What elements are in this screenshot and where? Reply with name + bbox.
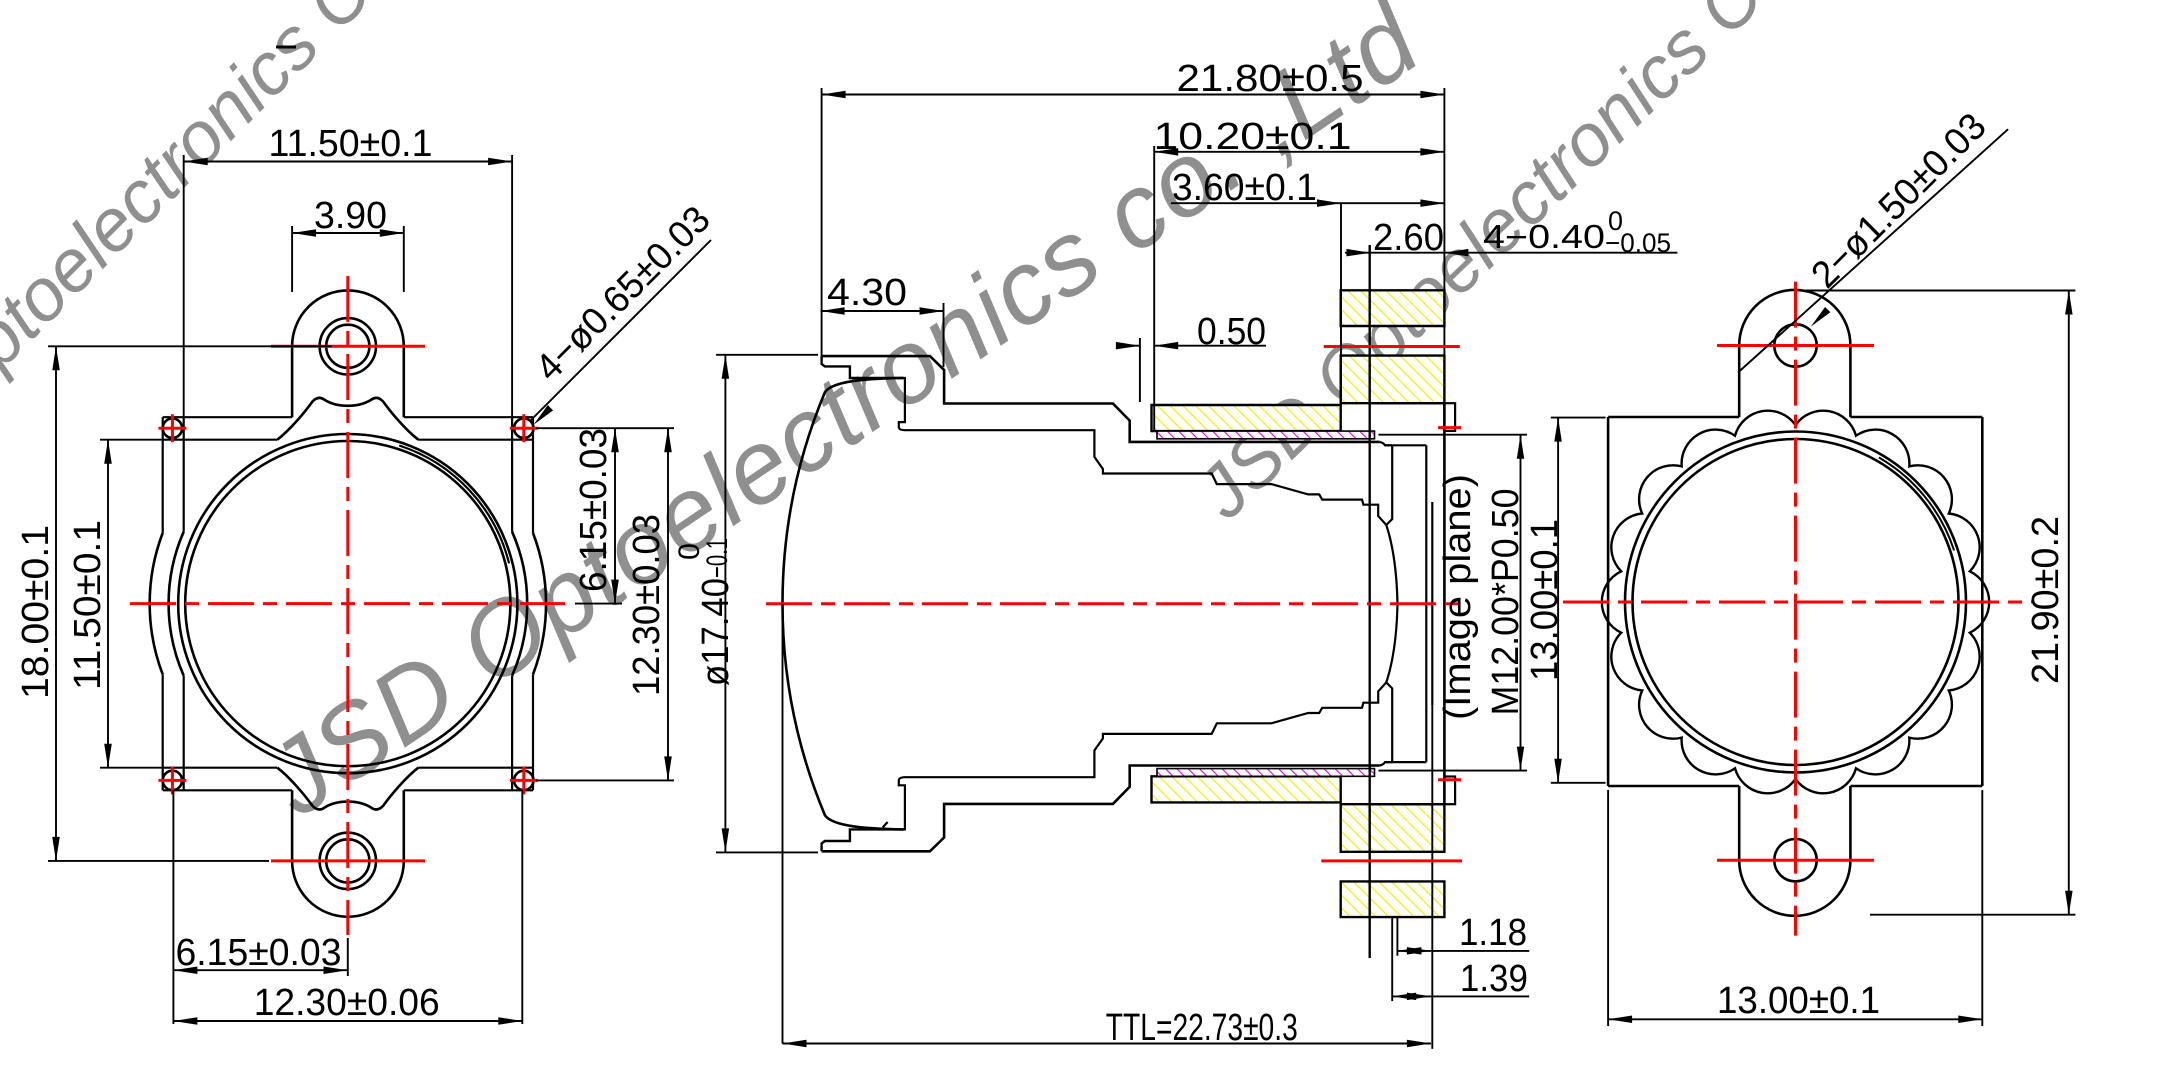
sensor holder bottom arm hatch: [1152, 776, 1341, 802]
left view left side bulge outer arc: [150, 533, 163, 674]
dim 4.30 line: [821, 310, 944, 312]
left view right side bulge outer arc: [533, 533, 546, 674]
right view top ear hole: [1774, 324, 1816, 366]
svg-text:0.50: 0.50: [1197, 311, 1266, 353]
dim 12.30 right line: [667, 428, 669, 780]
dim 3.60 line: [1171, 202, 1444, 204]
left view inner square bottom edge right segment: [418, 767, 512, 769]
left view outer square top edge left segment: [163, 416, 292, 418]
dim 18.00 extension lines: [48, 345, 332, 347]
left view inner square right edge lower: [511, 676, 513, 768]
dim 12.30 bottom right extension line: [521, 790, 523, 1024]
dim M12 line: [1520, 435, 1522, 771]
dim 4.30 right extension: [943, 303, 945, 367]
left view bottom-left corner hole: [163, 771, 182, 790]
svg-text:ø17.40: ø17.40: [695, 578, 737, 686]
dim 4-dia0.65 leader: [530, 240, 711, 421]
dim 13.00 right-view-bottom extension lines: [1607, 790, 1609, 1026]
left view top-right corner hole: [514, 419, 533, 438]
left view top ear hole red crosshair: [271, 345, 425, 348]
dim 21.90 line: [2068, 291, 2070, 915]
front lens dome curve: [782, 378, 903, 829]
left view top ear hole inner circle: [326, 325, 369, 368]
svg-text:4.30: 4.30: [827, 272, 907, 314]
svg-text:TTL=22.73±0.3: TTL=22.73±0.3: [1106, 1007, 1298, 1049]
dim 6.15 bottom line: [173, 969, 347, 971]
svg-text:12.30±0.06: 12.30±0.06: [254, 982, 440, 1024]
left view top-left corner hole red crosshair: [158, 427, 186, 430]
dim 6.15 bottom extension lines: [172, 790, 174, 1024]
dim 6.15 right extension line: [575, 603, 622, 605]
sensor glass bottom strip magenta hatch: [1157, 769, 1375, 777]
left view vertical red centerline: [346, 276, 349, 935]
dim 21.80 left extension: [821, 88, 823, 356]
left view inner square left edge lower: [183, 676, 185, 768]
right view bottom ear outline: [1739, 786, 1850, 916]
left view inner square top edge left segment: [184, 439, 278, 441]
left view outer square left edge upper: [162, 417, 164, 533]
left view inner square top edge right segment: [418, 439, 512, 441]
right view top ear hole red crosshair: [1717, 344, 1874, 347]
sensor glass top strip magenta hatch: [1157, 431, 1375, 439]
dim 1.18 line: [1397, 950, 1431, 952]
dim 13.00 right-view-bottom line: [1608, 1018, 1982, 1020]
left view outer square bottom edge left segment: [163, 789, 292, 791]
svg-text:4−0.40: 4−0.40: [1483, 218, 1605, 255]
rear tube end face: [1425, 445, 1427, 762]
dim 11.50 left line: [107, 440, 109, 768]
svg-text:11.50±0.1: 11.50±0.1: [269, 123, 433, 165]
dim 12.30 bottom line: [173, 1020, 522, 1022]
left view inner square right edge upper: [511, 440, 513, 532]
left view top-right corner hole red crosshair: [510, 427, 538, 430]
right view square bottom edge right segment: [1850, 785, 1982, 788]
left view bottom ear hole outer circle: [320, 833, 376, 889]
dim 0.50 left extension: [1139, 338, 1141, 402]
svg-text:2.60: 2.60: [1373, 217, 1444, 259]
left view bottom-right corner hole: [514, 771, 533, 790]
svg-text:10.20±0.1: 10.20±0.1: [1154, 116, 1352, 158]
right view square top edge right segment: [1850, 416, 1982, 419]
dim 1.39 line: [1392, 995, 1431, 997]
right view square right edge: [1981, 417, 1984, 786]
left view inner square bottom edge left segment: [184, 767, 278, 769]
svg-text:21.90±0.2: 21.90±0.2: [2025, 516, 2067, 684]
left view bottom-right pad top edge: [512, 767, 533, 769]
dim 3.90 line: [292, 232, 404, 234]
flange bottom edge: [1370, 803, 1445, 805]
left view top ear outline: [292, 290, 404, 417]
rear tube top edge bottom: [1385, 761, 1426, 763]
inner bore steps top: [899, 378, 1387, 525]
watermark group: [0, 0, 1913, 839]
flange top edge: [1370, 402, 1445, 404]
left view top ear hole outer circle: [320, 318, 376, 374]
right view partial thread arc: [1879, 458, 1954, 551]
image plane line: [1431, 502, 1433, 705]
dim 11.50 top extension lines: [183, 155, 185, 417]
left view lens barrel inner circle: [185, 441, 510, 766]
dim M12 extension lines: [1379, 434, 1528, 436]
middle view top slot red centerline: [1324, 345, 1460, 348]
rear tube top edge top: [1385, 444, 1426, 446]
svg-text:13.00±0.1: 13.00±0.1: [1717, 980, 1880, 1022]
dim 2-dia1.50 leader: [1738, 129, 2008, 372]
left view right side bulge inner arc: [512, 532, 527, 676]
dim 10.20 line: [1154, 151, 1444, 153]
right view scalloped ring: [1602, 411, 1989, 794]
rear tube shoulder bottom: [1380, 762, 1393, 765]
left view outer square bottom edge right segment: [404, 789, 533, 791]
svg-text:6.15±0.03: 6.15±0.03: [573, 428, 615, 592]
dim 11.50 top line: [184, 161, 512, 163]
left view top-left pad bottom edge: [163, 439, 184, 441]
right view vertical red centerline: [1794, 282, 1797, 936]
barrel outer silhouette top: [822, 356, 1380, 442]
left view outer square right edge lower: [532, 674, 534, 790]
flange front face vertical (thread start): [1368, 245, 1370, 958]
right view square bottom edge left segment: [1608, 785, 1739, 788]
left view bottom petal curve: [277, 768, 418, 810]
right view bottom ear hole red crosshair: [1717, 859, 1874, 862]
sensor holder top arm hatch: [1152, 405, 1341, 431]
sensor holder top block lower hatch: [1341, 356, 1445, 404]
left view top-left pad right edge: [183, 417, 185, 440]
dim 2.60 line: [1345, 252, 1677, 254]
right view horizontal red centerline: [1563, 601, 2032, 604]
left view partial thread arc: [399, 446, 509, 564]
middle view bottom slot red centerline: [1321, 859, 1462, 862]
left view bottom-left corner hole red crosshair: [158, 779, 186, 782]
right view square left edge: [1607, 417, 1610, 786]
svg-text:12.30±0.03: 12.30±0.03: [626, 514, 668, 696]
left view horizontal red centerline: [130, 602, 565, 605]
barrel front face bottom: [822, 829, 904, 851]
bottom lip tick mark: [883, 822, 888, 828]
dim dia17.40 line: [724, 355, 726, 853]
dim 10.20 left extension: [1153, 146, 1155, 430]
svg-text:3.90: 3.90: [314, 195, 387, 237]
dim 3.60 left extension: [1340, 203, 1342, 405]
middle view bottom tab red tick: [1438, 778, 1461, 781]
right view inner circle inner: [1633, 439, 1959, 765]
svg-text:11.50±0.1: 11.50±0.1: [67, 520, 109, 690]
sensor holder bottom block lower hatch: [1341, 881, 1445, 917]
left view left side bulge inner arc: [169, 532, 184, 676]
right view square top edge left segment: [1608, 416, 1739, 419]
dim 3.90 extension lines: [291, 226, 293, 292]
middle view top tab red tick: [1438, 426, 1461, 429]
dim 21.80 line: [822, 94, 1445, 96]
left view inner square left edge upper: [183, 440, 185, 532]
svg-text:(Image plane): (Image plane): [1437, 474, 1479, 720]
left view outer square top edge right segment: [404, 416, 533, 418]
left view lens barrel outer circle: [178, 434, 517, 773]
left view bottom ear outline: [292, 790, 404, 916]
dim 1.18 left extension: [1396, 917, 1398, 956]
inner bore steps bottom: [899, 682, 1387, 829]
left view top-left corner hole: [163, 419, 182, 438]
left view bottom-right corner hole red crosshair: [510, 779, 538, 782]
left view outer square left edge lower: [162, 674, 164, 790]
flange tab top: [1444, 403, 1455, 431]
rear lens surface top: [1386, 445, 1397, 603]
right view top ear outline: [1739, 290, 1850, 417]
svg-text:21.80±0.5: 21.80±0.5: [1177, 58, 1364, 100]
svg-text:−0.05: −0.05: [1605, 228, 1671, 258]
dim TTL line: [783, 1043, 1431, 1045]
svg-text:18.00±0.1: 18.00±0.1: [15, 525, 57, 699]
left view bottom-left pad right edge: [183, 768, 185, 791]
left view bottom-right pad left edge: [511, 768, 513, 791]
left view top-right pad bottom edge: [512, 439, 533, 441]
svg-text:3.60±0.1: 3.60±0.1: [1172, 167, 1317, 209]
back face extension upper: [1443, 88, 1445, 403]
dim 0.50 line: [1116, 345, 1140, 347]
rear tube shoulder top: [1380, 442, 1393, 445]
TTL right extension via image plane: [1431, 705, 1433, 1049]
left view top petal curve: [277, 398, 418, 440]
barrel outer silhouette bottom: [822, 766, 1380, 852]
barrel front face top: [822, 356, 904, 378]
sensor holder bottom block upper hatch: [1341, 804, 1445, 852]
dim 1.39 left extension: [1391, 917, 1393, 1001]
dim 1.18 text and underline: [1431, 950, 1529, 952]
flange tab bottom: [1444, 777, 1455, 805]
dim dia17.40 extension lines: [716, 354, 818, 356]
dim 13.00 right-view-left extension lines: [1551, 417, 1606, 419]
right view inner circle outer: [1625, 432, 1966, 773]
left view bottom ear hole red crosshair: [271, 859, 425, 862]
svg-text:1.18: 1.18: [1459, 912, 1527, 954]
svg-text:M12.00*P0.50: M12.00*P0.50: [1485, 489, 1527, 716]
dim 11.50 left extension lines: [100, 439, 162, 441]
left view bottom-left pad top edge: [163, 767, 184, 769]
svg-text:−0.1: −0.1: [701, 538, 734, 578]
stray mark: [276, 46, 296, 49]
dim 1.39 text and underline: [1431, 995, 1529, 997]
dim 18.00 line: [55, 346, 57, 861]
rear lens surface bottom: [1386, 604, 1397, 762]
middle view horizontal red centerline: [766, 602, 1466, 605]
svg-text:1.39: 1.39: [1460, 958, 1528, 1000]
sensor holder top block upper hatch: [1341, 290, 1445, 326]
left view bottom ear hole inner circle: [326, 839, 369, 882]
flange back face: [1443, 403, 1446, 804]
dim 21.90 extension lines: [1806, 290, 2075, 292]
svg-text:13.00±0.1: 13.00±0.1: [1524, 519, 1566, 681]
left view outer square right edge upper: [532, 417, 534, 533]
dim 13.00 right-view-left line: [1557, 418, 1559, 783]
dim TTL left extension: [782, 604, 784, 1044]
right view bottom ear hole: [1774, 839, 1816, 881]
dim 12.30 right extension lines: [536, 427, 674, 429]
left view top-right pad left edge: [511, 417, 513, 440]
dim 6.15 right line: [614, 428, 616, 603]
svg-text:6.15±0.03: 6.15±0.03: [176, 932, 342, 974]
